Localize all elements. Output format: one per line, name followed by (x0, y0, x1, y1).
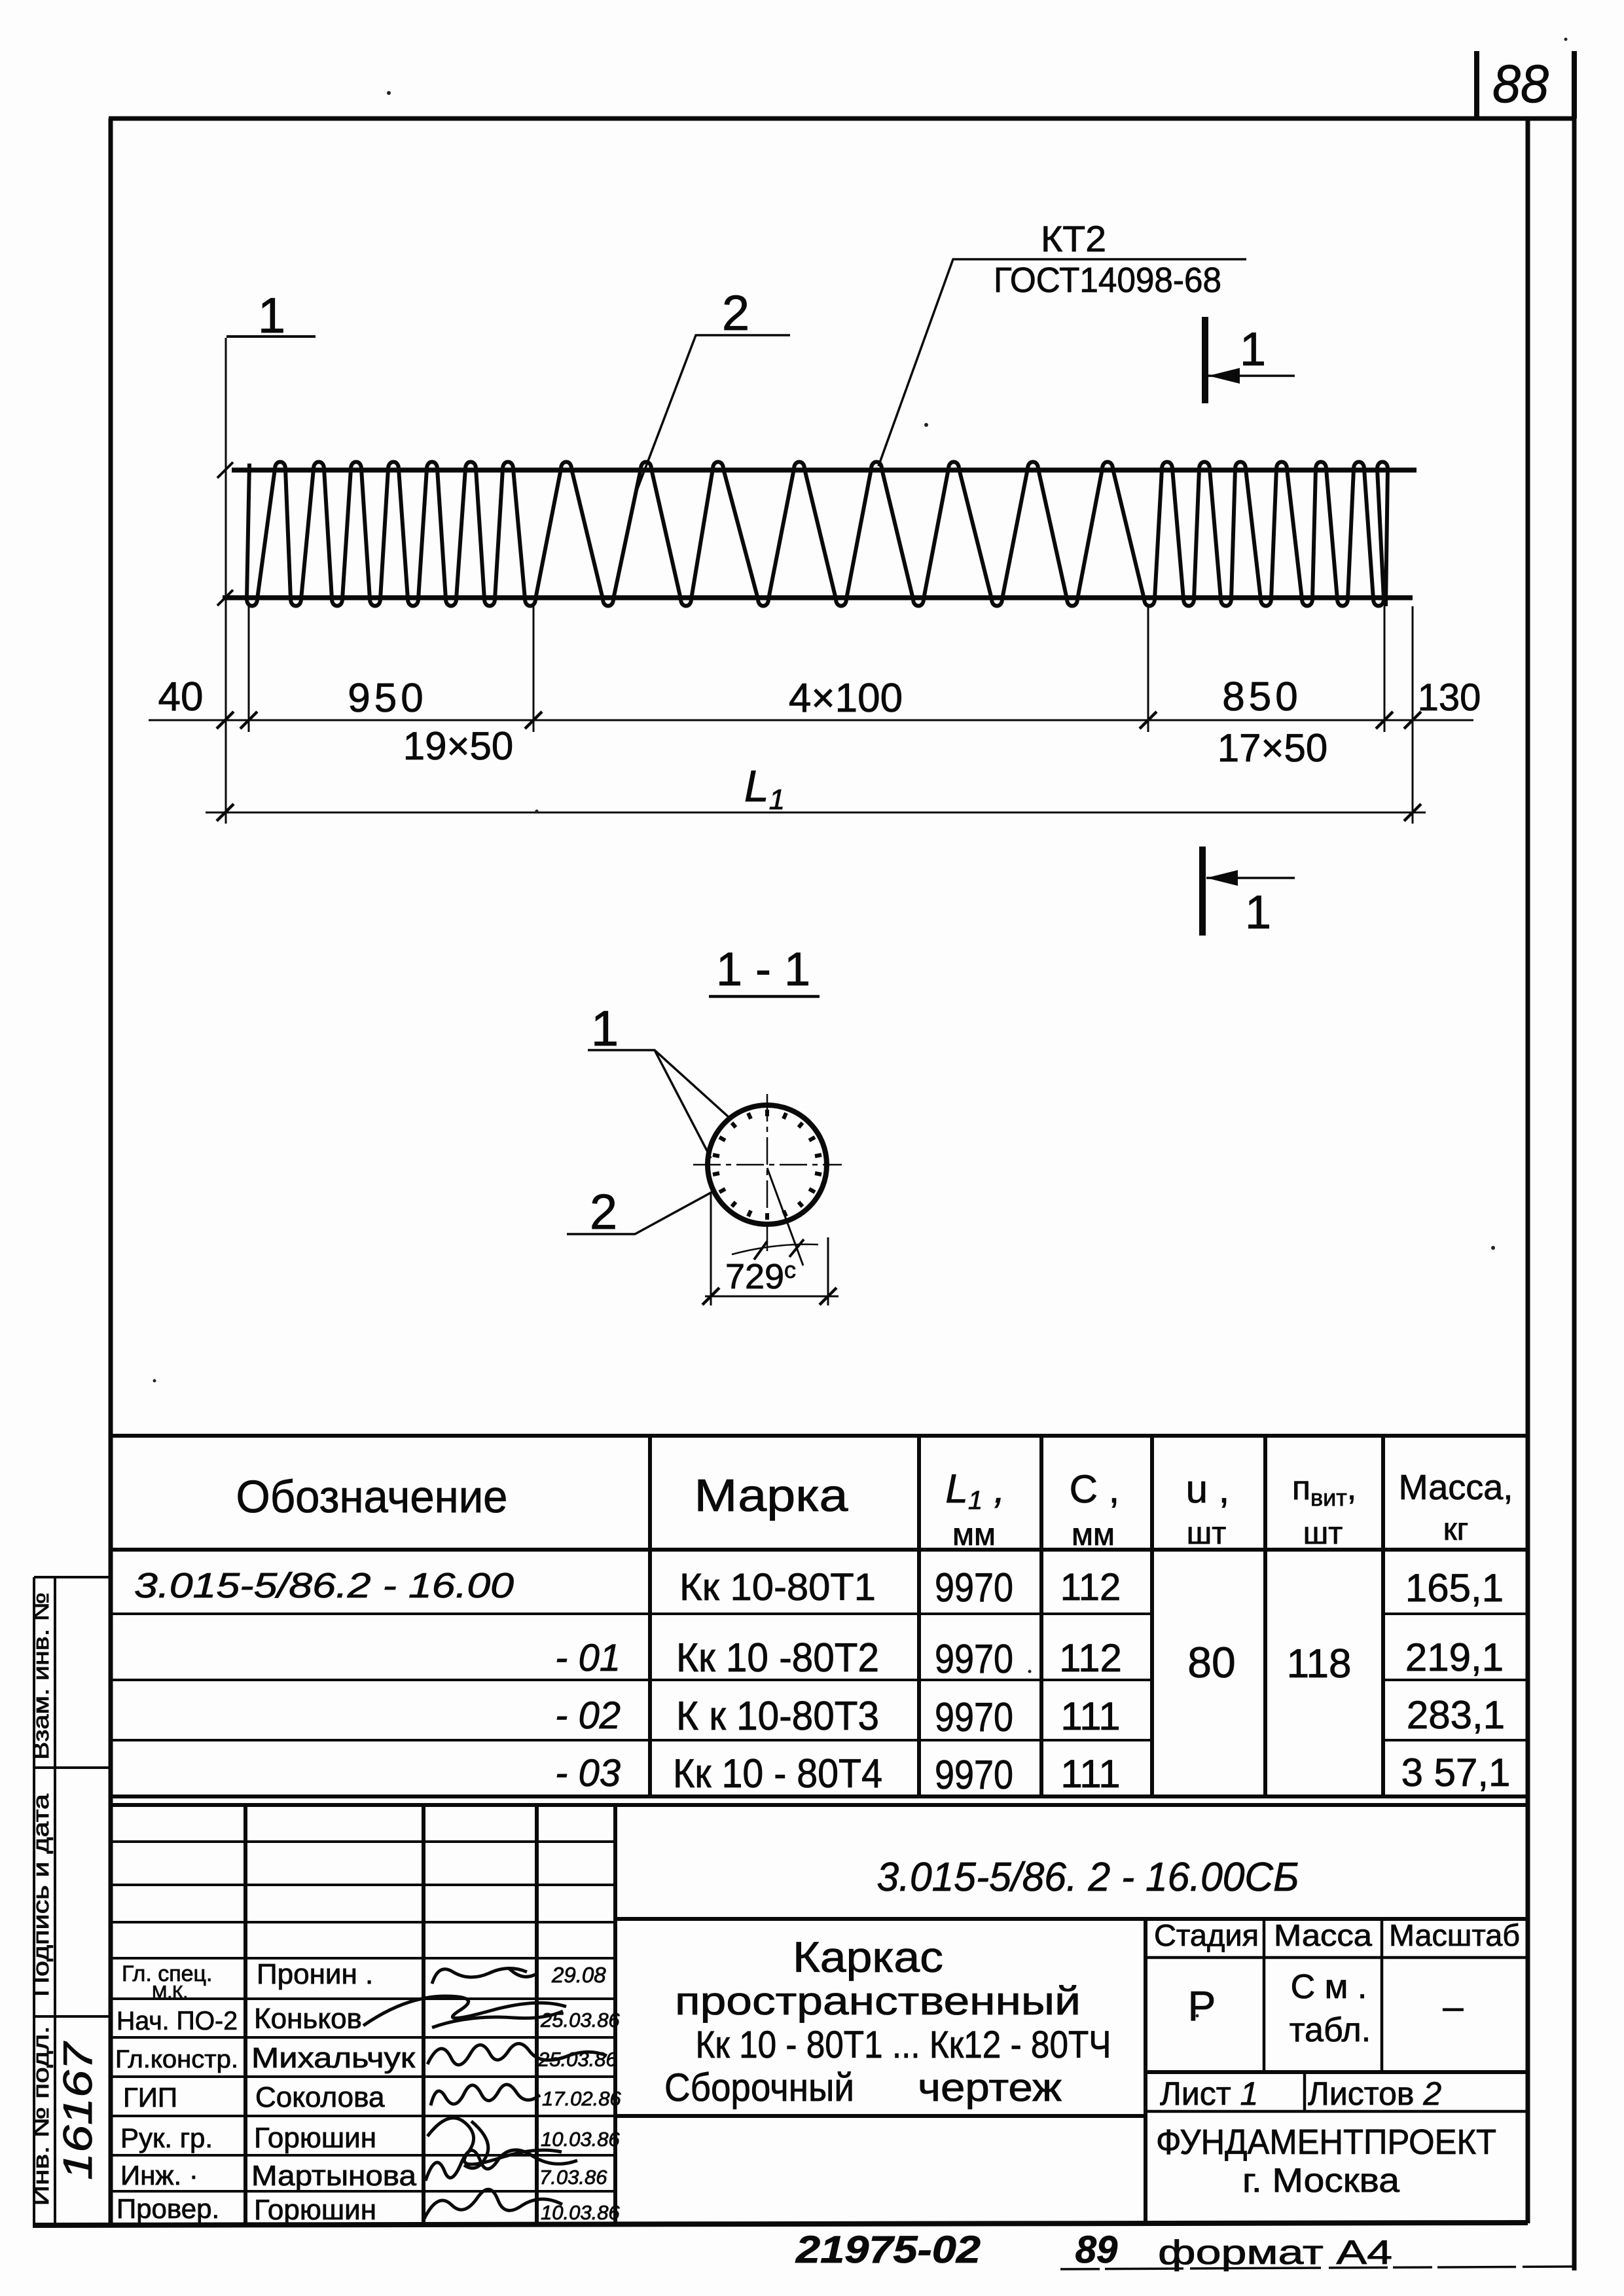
top chord bar (232, 467, 1416, 473)
svg-text:9970: 9970 (935, 1695, 1013, 1740)
svg-text:шт: шт (1187, 1516, 1227, 1551)
svg-text:Михальчук: Михальчук (251, 2042, 416, 2074)
svg-text:чертеж: чертеж (918, 2066, 1062, 2109)
svg-text:2: 2 (722, 285, 749, 341)
vertical centerline (767, 1094, 768, 1256)
section cut mark 1 lower-right (1202, 847, 1295, 936)
svg-text:Масса,: Масса, (1399, 1468, 1513, 1507)
svg-text:Кк 10 - 80Т1 ... Кк12 - 80ТЧ: Кк 10 - 80Т1 ... Кк12 - 80ТЧ (696, 2024, 1111, 2066)
svg-text:118: 118 (1287, 1641, 1352, 1686)
svg-text:3.015-5/86.2 - 16.00: 3.015-5/86.2 - 16.00 (134, 1566, 514, 1605)
svg-text:- 02: - 02 (555, 1694, 621, 1737)
svg-text:Стадия: Стадия (1154, 1918, 1259, 1952)
row lines (111, 1614, 1528, 1740)
svg-text:С ,: С , (1070, 1467, 1120, 1511)
leader КТ2 ГОСТ 14098-68 (878, 259, 1246, 466)
svg-text:Кк 10 - 80Т4: Кк 10 - 80Т4 (673, 1751, 882, 1796)
svg-text:ГИП: ГИП (123, 2082, 177, 2113)
svg-text:Каркас: Каркас (793, 1933, 943, 1981)
svg-text:283,1: 283,1 (1407, 1693, 1505, 1737)
table outline (111, 1434, 1528, 1438)
svg-text:9970: 9970 (935, 1753, 1013, 1798)
svg-text:шт: шт (1303, 1516, 1343, 1551)
svg-text:80: 80 (1187, 1638, 1235, 1686)
svg-text:мм: мм (1072, 1518, 1115, 1552)
svg-text:29.08: 29.08 (551, 1963, 606, 1987)
svg-text:9970: 9970 (935, 1565, 1013, 1611)
svg-text:1: 1 (1240, 323, 1266, 376)
svg-text:Кк 10-80Т1: Кк 10-80Т1 (679, 1566, 876, 1609)
svg-text:С м .: С м . (1291, 1968, 1367, 2006)
svg-text:Инв. № подл.: Инв. № подл. (29, 2026, 54, 2206)
svg-text:Пронин .: Пронин . (257, 1958, 373, 1990)
svg-text:16167: 16167 (56, 2041, 101, 2180)
svg-text:К к 10-80Т3: К к 10-80Т3 (676, 1694, 879, 1739)
svg-text:3.015-5/86. 2 - 16.00СБ: 3.015-5/86. 2 - 16.00СБ (877, 1855, 1299, 1900)
svg-text:Кк 10 -80Т2: Кк 10 -80Т2 (676, 1635, 879, 1681)
svg-text:2: 2 (590, 1184, 617, 1240)
svg-text:табл.: табл. (1290, 2011, 1371, 2049)
svg-text:Соколова: Соколова (255, 2081, 385, 2113)
svg-text:4×100: 4×100 (789, 676, 903, 721)
svg-text:КТ2: КТ2 (1041, 218, 1106, 259)
svg-text:25.03.86: 25.03.86 (537, 2048, 617, 2071)
svg-text:Горюшин: Горюшин (254, 2122, 376, 2154)
dimension line 40/950/4x100/850/130 (149, 606, 1473, 732)
svg-text:Подпись и дата: Подпись и дата (29, 1794, 54, 1997)
svg-text:Обозначение: Обозначение (236, 1471, 508, 1522)
svg-text:кг: кг (1443, 1512, 1469, 1547)
title block grid (111, 1805, 1528, 2223)
bottom scan edge (1060, 2267, 1574, 2269)
svg-text:130: 130 (1418, 676, 1481, 719)
arc tick slashes (754, 1241, 767, 1260)
title block top line (111, 1803, 1528, 1807)
svg-text:пространственный: пространственный (675, 1979, 1081, 2023)
svg-text:Листов 2: Листов 2 (1308, 2075, 1441, 2112)
svg-text:1: 1 (258, 288, 285, 344)
signatures (363, 1968, 607, 2219)
spiral zigzag winding (247, 462, 1388, 607)
horizontal centerline (693, 1164, 842, 1166)
svg-text:88: 88 (1492, 54, 1549, 114)
strip verticals (33, 1577, 35, 2223)
section mark 1 upper-left (226, 335, 316, 338)
sheet number box (1477, 51, 1574, 118)
svg-text:Рук. гр.: Рук. гр. (120, 2123, 213, 2153)
svg-text:89: 89 (1075, 2229, 1118, 2271)
svg-text:Мартынова: Мартынова (251, 2160, 417, 2192)
svg-text:7.03.86: 7.03.86 (539, 2166, 607, 2189)
svg-text:ФУНДАМЕНТПРОЕКТ: ФУНДАМЕНТПРОЕКТ (1156, 2123, 1496, 2162)
svg-text:111: 111 (1060, 1694, 1120, 1738)
svg-text:165,1: 165,1 (1405, 1566, 1504, 1610)
svg-text:3 57,1: 3 57,1 (1401, 1751, 1511, 1795)
svg-text:219,1: 219,1 (1405, 1635, 1504, 1679)
outer right border (1572, 118, 1577, 2270)
svg-text:Горюшин: Горюшин (254, 2194, 376, 2226)
svg-text:Марка: Марка (695, 1470, 848, 1521)
strip dividers (34, 1576, 111, 1578)
svg-text:- 01: - 01 (555, 1637, 621, 1679)
angle radius line (767, 1168, 803, 1266)
section cut mark 1 upper-right (1205, 317, 1295, 403)
svg-text:Масштаб: Масштаб (1389, 1918, 1520, 1952)
LEFT MARGIN STRIP (34, 1577, 111, 2223)
svg-text:ГОСТ14098-68: ГОСТ14098-68 (994, 261, 1221, 300)
leader label 1 longitudinal bars (588, 1050, 729, 1158)
overall dimension L1 (206, 338, 1426, 824)
svg-text:г. Москва: г. Москва (1242, 2162, 1399, 2200)
svg-text:Масса: Масса (1274, 1918, 1372, 1952)
chord end slashes (217, 462, 233, 606)
svg-text:–: – (1443, 1986, 1464, 2027)
svg-text:формат А4: формат А4 (1158, 2234, 1392, 2272)
svg-text:17.02.86: 17.02.86 (542, 2087, 621, 2110)
dimension under circle (702, 1192, 839, 1305)
leader label 2 spiral (567, 1191, 714, 1234)
svg-text:1: 1 (591, 1001, 619, 1057)
svg-text:17×50: 17×50 (1218, 726, 1328, 770)
svg-text:1: 1 (1245, 886, 1271, 939)
svg-text:950: 950 (348, 676, 427, 721)
svg-text:u ,: u , (1186, 1467, 1230, 1511)
svg-text:Провер.: Провер. (117, 2193, 219, 2224)
svg-text:21975-02: 21975-02 (795, 2229, 981, 2271)
bottom chord bar (223, 595, 1413, 600)
svg-text:М.К.: М.К. (152, 1982, 188, 2002)
svg-text:112: 112 (1059, 1636, 1122, 1680)
svg-text:Сборочный: Сборочный (664, 2066, 854, 2109)
svg-text:Инж. ·: Инж. · (120, 2160, 198, 2191)
rebar ticks (713, 1110, 821, 1220)
svg-text:112: 112 (1060, 1566, 1121, 1609)
svg-text:10.03.86: 10.03.86 (541, 2128, 620, 2151)
svg-text:850: 850 (1222, 674, 1301, 720)
svg-text:1 - 1: 1 - 1 (716, 943, 810, 996)
svg-text:Взам. инв. №: Взам. инв. № (29, 1592, 54, 1760)
svg-text:Лист 1: Лист 1 (1160, 2075, 1258, 2112)
svg-text:9970: 9970 (935, 1637, 1013, 1682)
svg-text:25.03.86: 25.03.86 (540, 2009, 620, 2032)
svg-text:- 03: - 03 (555, 1752, 621, 1795)
svg-text:Р: Р (1188, 1982, 1216, 2030)
svg-text:40: 40 (158, 674, 204, 720)
table columns (648, 1436, 652, 1796)
svg-text:111: 111 (1060, 1752, 1120, 1796)
spiral circle (708, 1105, 827, 1224)
svg-text:10.03.86: 10.03.86 (541, 2201, 620, 2224)
svg-text:Коньков: Коньков (254, 2003, 362, 2035)
svg-text:мм: мм (952, 1518, 996, 1552)
svg-text:19×50: 19×50 (403, 724, 514, 768)
svg-text:Гл.констр.: Гл.констр. (115, 2046, 238, 2073)
scan specks (153, 38, 1568, 2018)
leader label 2 spiral (634, 335, 790, 499)
angle arc (732, 1245, 818, 1254)
svg-text:Нач. ПО-2: Нач. ПО-2 (117, 2007, 238, 2035)
spec table grid (111, 1436, 1528, 1796)
